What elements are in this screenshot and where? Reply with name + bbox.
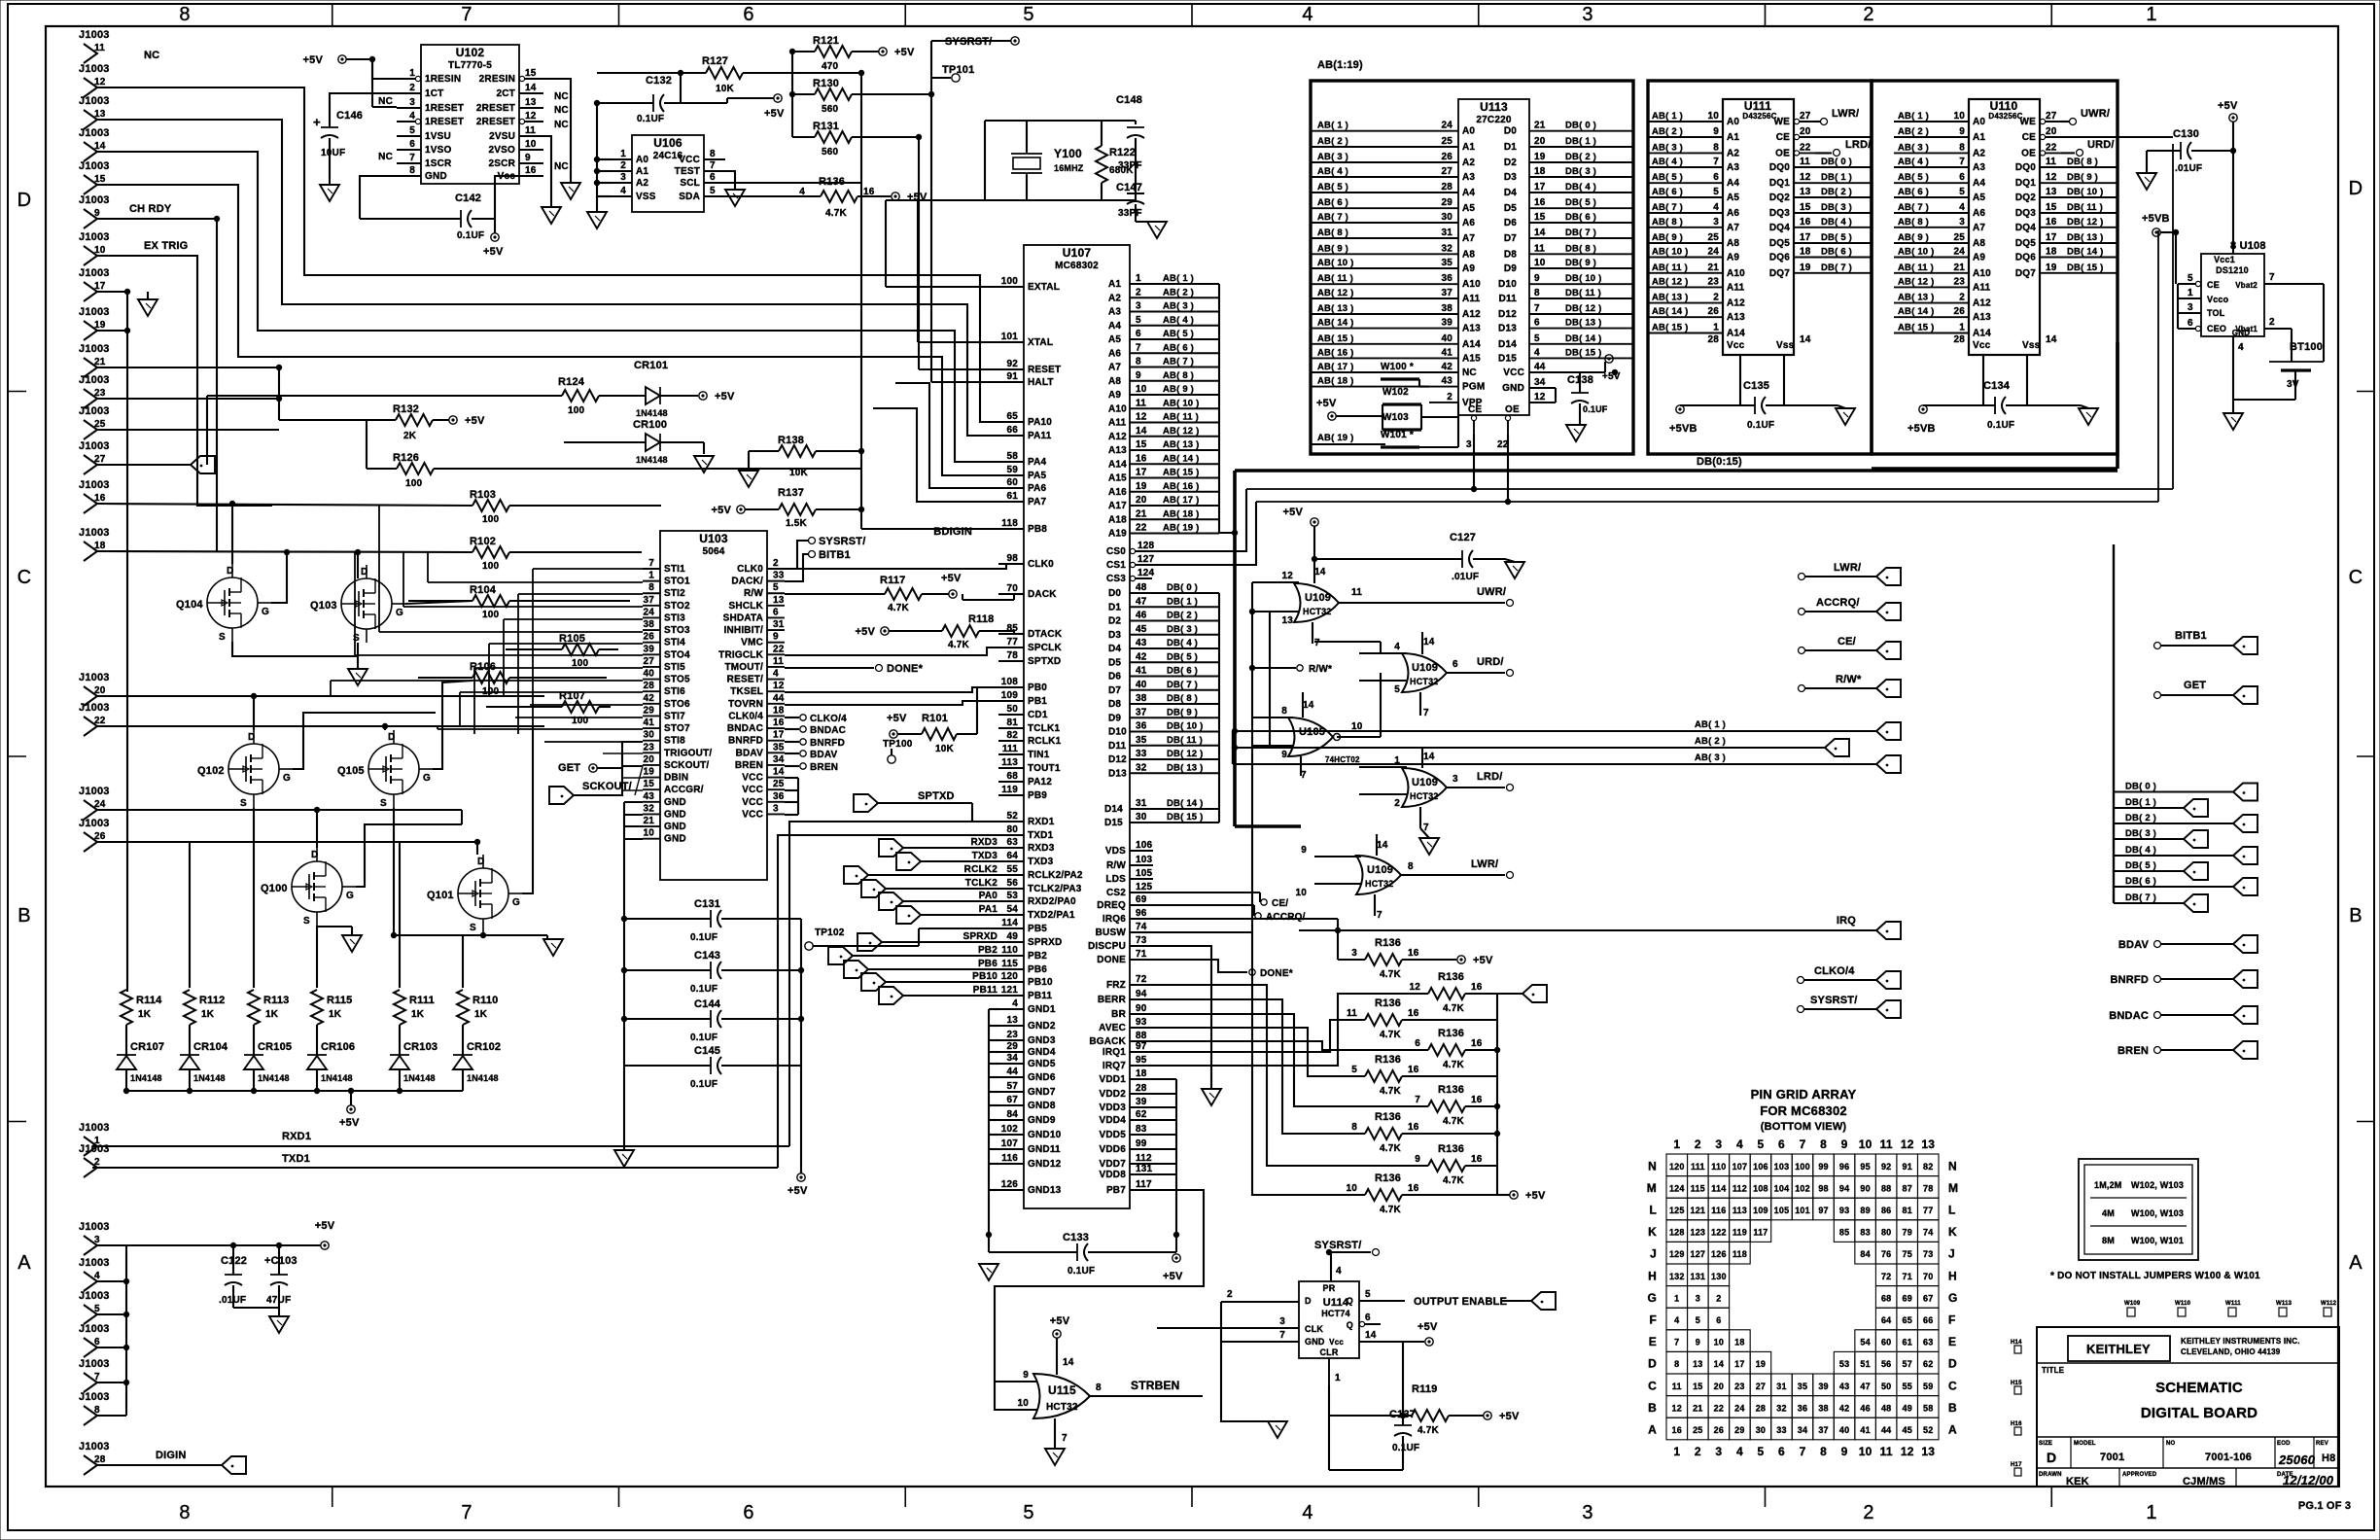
svg-text:+5V: +5V xyxy=(887,713,907,724)
svg-text:22: 22 xyxy=(1800,142,1811,153)
svg-text:0.1UF: 0.1UF xyxy=(457,230,484,241)
svg-text:18: 18 xyxy=(94,541,106,551)
svg-text:DB( 7 ): DB( 7 ) xyxy=(1167,680,1198,690)
wire U103 TKSEL to U107 PB0 xyxy=(785,687,1024,692)
U103 pin 39 STO4 xyxy=(643,653,660,655)
wire U102 pin2 to C146 xyxy=(330,93,397,100)
svg-text:128: 128 xyxy=(1137,541,1155,551)
U103 pin 35 BDAV xyxy=(767,752,785,753)
svg-text:F: F xyxy=(1948,1312,1956,1326)
svg-text:D2: D2 xyxy=(1504,157,1517,168)
svg-text:41: 41 xyxy=(1860,1425,1870,1435)
U107 pin 20 A17 / bus AB(17) xyxy=(1130,505,1219,507)
svg-text:DTACK: DTACK xyxy=(1028,629,1063,640)
svg-text:12: 12 xyxy=(1409,982,1420,993)
svg-text:42: 42 xyxy=(643,693,654,704)
svg-text:3: 3 xyxy=(1959,217,1965,227)
terminal BNRFD xyxy=(2154,976,2161,983)
svg-text:BNDAC: BNDAC xyxy=(2109,1010,2149,1022)
svg-text:4: 4 xyxy=(1736,1137,1743,1151)
transistor Q101 xyxy=(458,868,508,919)
svg-text:560: 560 xyxy=(822,104,839,115)
IC U113 27C220 xyxy=(1458,99,1529,415)
svg-text:VDS: VDS xyxy=(1105,846,1126,857)
svg-text:D11: D11 xyxy=(1499,294,1518,304)
svg-text:AB( 9 ): AB( 9 ) xyxy=(1898,232,1929,243)
svg-text:D7: D7 xyxy=(1504,233,1517,244)
wire R110 column up xyxy=(462,935,464,988)
svg-text:9: 9 xyxy=(1534,273,1540,284)
svg-text:1N4148: 1N4148 xyxy=(403,1073,436,1083)
wire FRZ staircase xyxy=(1153,985,1428,1166)
svg-text:23: 23 xyxy=(94,388,106,399)
wire Q103 gate xyxy=(405,601,472,604)
node SYSRST/ at U103 xyxy=(785,541,808,569)
svg-text:U109: U109 xyxy=(1305,592,1331,604)
svg-text:KEK: KEK xyxy=(2066,1476,2089,1487)
svg-text:GND: GND xyxy=(664,822,686,832)
svg-text:S: S xyxy=(470,923,476,933)
svg-text:102: 102 xyxy=(1795,1183,1810,1193)
svg-text:96: 96 xyxy=(1136,908,1147,919)
svg-text:S: S xyxy=(353,633,360,644)
svg-text:D7: D7 xyxy=(1108,685,1121,696)
svg-text:5: 5 xyxy=(1365,1289,1371,1300)
svg-text:16: 16 xyxy=(1672,1425,1682,1435)
connector J1003 pin 4 xyxy=(84,1272,97,1291)
svg-text:1RESET: 1RESET xyxy=(425,117,464,127)
wire AVEC staircase xyxy=(1153,1028,1365,1076)
transistor Q100 xyxy=(292,861,342,912)
U107 pin 114 PB5 xyxy=(998,927,1024,929)
svg-text:HCT32: HCT32 xyxy=(1046,1402,1078,1413)
svg-text:6: 6 xyxy=(1959,172,1965,183)
svg-text:GND8: GND8 xyxy=(1028,1101,1056,1111)
svg-text:PB10: PB10 xyxy=(1028,977,1053,988)
svg-text:18: 18 xyxy=(1800,247,1811,258)
svg-text:DB( 2 ): DB( 2 ) xyxy=(1821,187,1852,197)
svg-text:PB6: PB6 xyxy=(1028,964,1047,975)
svg-text:10: 10 xyxy=(1136,384,1147,395)
terminal LWR/ xyxy=(1799,574,1805,580)
svg-text:DB( 14 ): DB( 14 ) xyxy=(1167,798,1204,809)
svg-text:.01UF: .01UF xyxy=(1452,572,1479,582)
svg-text:TXD2/PA1: TXD2/PA1 xyxy=(1028,910,1075,921)
svg-text:E: E xyxy=(1948,1335,1956,1348)
svg-text:7: 7 xyxy=(1423,708,1429,718)
U103 pin 30 STI8 xyxy=(643,740,660,742)
svg-text:23: 23 xyxy=(1953,276,1965,287)
U113 pin 42 NC xyxy=(1429,371,1458,373)
U107 pin 62 VDD4 xyxy=(1130,1119,1153,1121)
U113 pin 15 D6 / bus DB(6) xyxy=(1529,222,1633,224)
svg-text:A14: A14 xyxy=(1108,459,1127,470)
wire to U107 PA6 xyxy=(895,383,998,488)
svg-text:A13: A13 xyxy=(1108,445,1127,456)
wire diode common bus xyxy=(126,1090,463,1092)
svg-text:PB11: PB11 xyxy=(973,985,998,996)
svg-text:D3: D3 xyxy=(1504,172,1517,183)
svg-text:AB( 7 ): AB( 7 ) xyxy=(1317,212,1348,223)
ground below U106 TEST xyxy=(725,171,735,190)
svg-text:D43256C: D43256C xyxy=(1742,112,1776,121)
svg-text:A1: A1 xyxy=(1108,279,1121,290)
svg-text:AB( 17 ): AB( 17 ) xyxy=(1317,362,1354,372)
U113 pin 19 D2 / bus DB(2) xyxy=(1529,161,1633,163)
svg-text:RXD3: RXD3 xyxy=(1028,843,1055,854)
svg-text:64: 64 xyxy=(1006,851,1018,861)
U113 pin 39 A13 xyxy=(1429,328,1458,330)
svg-text:R136: R136 xyxy=(1375,1111,1401,1123)
svg-text:K: K xyxy=(1648,1225,1657,1239)
svg-text:82: 82 xyxy=(1006,730,1018,741)
svg-text:41: 41 xyxy=(643,717,654,728)
U107 pin 29 GND4 xyxy=(998,1051,1024,1053)
U103 pin 26 STI4 xyxy=(643,642,660,644)
svg-text:1: 1 xyxy=(1136,273,1141,284)
svg-text:110: 110 xyxy=(1711,1162,1726,1172)
svg-text:29: 29 xyxy=(1441,197,1452,208)
svg-text:DB( 8 ): DB( 8 ) xyxy=(1565,243,1596,254)
svg-text:D0: D0 xyxy=(1108,588,1121,599)
U103 pin 38 STO3 xyxy=(643,629,660,631)
svg-text:(BOTTOM VIEW): (BOTTOM VIEW) xyxy=(1761,1121,1847,1133)
wire to U107 PA7 xyxy=(873,408,998,502)
svg-text:4.7K: 4.7K xyxy=(1443,1116,1465,1127)
svg-text:24: 24 xyxy=(1734,1403,1744,1413)
svg-text:SDA: SDA xyxy=(679,192,700,202)
svg-text:D10: D10 xyxy=(1498,279,1517,290)
U113 pin 7 D12 / bus DB(12) xyxy=(1529,313,1633,315)
svg-text:STO3: STO3 xyxy=(664,625,690,636)
svg-text:96: 96 xyxy=(1839,1162,1849,1172)
svg-text:A6: A6 xyxy=(1462,218,1475,228)
svg-text:69: 69 xyxy=(1136,894,1147,905)
U107 pin 13 GND2 xyxy=(998,1025,1024,1027)
U114 pin 14 Vcc xyxy=(1359,1341,1424,1343)
U107 pin 84 GND9 xyxy=(998,1119,1024,1121)
svg-text:AB( 10 ): AB( 10 ) xyxy=(1898,247,1935,258)
svg-text:GND2: GND2 xyxy=(1028,1021,1056,1032)
svg-text:93: 93 xyxy=(1839,1206,1849,1215)
svg-text:DQ2: DQ2 xyxy=(2015,192,2036,203)
U113 pin 25 A1 xyxy=(1429,146,1458,148)
U113 pin 35 A9 xyxy=(1429,267,1458,269)
svg-text:AB( 13 ): AB( 13 ) xyxy=(1652,293,1689,303)
svg-text:16: 16 xyxy=(773,717,785,728)
svg-text:AB(1:19): AB(1:19) xyxy=(1317,59,1363,71)
svg-text:95: 95 xyxy=(1136,1055,1147,1066)
svg-text:AB( 9 ): AB( 9 ) xyxy=(1163,384,1194,395)
flag PA0 xyxy=(879,892,903,910)
U114 pin 5 Q xyxy=(1359,1300,1405,1302)
svg-text:U111: U111 xyxy=(1744,99,1771,113)
svg-text:R/W*: R/W* xyxy=(1836,674,1862,685)
svg-text:S: S xyxy=(219,632,226,643)
svg-text:30: 30 xyxy=(1441,212,1452,223)
svg-text:48: 48 xyxy=(1136,582,1147,593)
svg-text:1N4148: 1N4148 xyxy=(258,1073,290,1083)
svg-text:GND7: GND7 xyxy=(1028,1087,1056,1098)
terminal R/W* xyxy=(1799,685,1805,692)
svg-text:AB( 9 ): AB( 9 ) xyxy=(1652,232,1683,243)
svg-text:118: 118 xyxy=(1001,518,1018,529)
ground below C147 xyxy=(1147,222,1167,238)
svg-text:+5V: +5V xyxy=(303,54,324,66)
U107 pin 30 D15 / bus DB(15) xyxy=(1130,822,1219,823)
svg-text:BNRFD: BNRFD xyxy=(2111,974,2150,986)
svg-text:A5: A5 xyxy=(1973,192,1985,203)
svg-text:STO1: STO1 xyxy=(664,577,690,587)
svg-text:C: C xyxy=(1948,1379,1957,1392)
svg-text:DB( 14 ): DB( 14 ) xyxy=(1565,333,1602,344)
svg-text:CH RDY: CH RDY xyxy=(129,203,172,215)
svg-text:D: D xyxy=(17,190,32,211)
svg-text:TP100: TP100 xyxy=(883,739,913,750)
U102 pin 8 GND xyxy=(397,175,421,177)
svg-text:A4: A4 xyxy=(1727,178,1739,189)
svg-text:C135: C135 xyxy=(1743,380,1769,392)
svg-text:21: 21 xyxy=(1693,1403,1702,1413)
svg-text:+5V: +5V xyxy=(1499,1411,1520,1422)
wire IRQ7 staircase xyxy=(1153,994,1428,1066)
U103 pin 19 DBIN xyxy=(643,777,660,779)
U103 pin 10 GND xyxy=(643,838,660,840)
svg-text:STI5: STI5 xyxy=(664,662,685,673)
svg-text:RXD1: RXD1 xyxy=(282,1131,311,1142)
svg-text:81: 81 xyxy=(1902,1206,1911,1215)
svg-text:7: 7 xyxy=(1534,303,1540,314)
svg-text:DB( 3 ): DB( 3 ) xyxy=(1821,202,1852,213)
svg-text:STI6: STI6 xyxy=(664,686,685,697)
svg-text:88: 88 xyxy=(1136,1031,1147,1041)
svg-text:18: 18 xyxy=(1136,1068,1147,1079)
svg-text:D: D xyxy=(2047,1450,2056,1465)
svg-text:68: 68 xyxy=(1006,771,1018,782)
svg-text:14: 14 xyxy=(1377,840,1388,851)
svg-text:6: 6 xyxy=(1365,1312,1371,1323)
transistor Q102 xyxy=(228,744,279,794)
svg-text:A1: A1 xyxy=(1973,132,1985,143)
U113 pin 31 A7 xyxy=(1429,237,1458,239)
svg-text:AB( 18 ): AB( 18 ) xyxy=(1163,508,1200,519)
svg-text:3: 3 xyxy=(1582,1502,1592,1523)
svg-text:38: 38 xyxy=(1441,303,1452,314)
svg-text:5: 5 xyxy=(1136,315,1141,326)
svg-text:GND: GND xyxy=(664,834,686,845)
svg-text:D: D xyxy=(311,850,318,860)
svg-text:REV: REV xyxy=(2316,1441,2328,1447)
svg-text:13: 13 xyxy=(1281,615,1293,626)
svg-text:106: 106 xyxy=(1753,1162,1768,1172)
svg-text:SPRXD: SPRXD xyxy=(963,931,997,942)
bus AB(1) to flag xyxy=(1233,730,1876,732)
U102 pin 13 2RESET xyxy=(519,107,543,109)
U107 pin 23 GND3 xyxy=(998,1039,1024,1041)
svg-text:114: 114 xyxy=(1001,918,1018,928)
svg-text:82: 82 xyxy=(1923,1162,1933,1172)
U107 pin 16 A14 / bus AB(14) xyxy=(1130,463,1219,465)
svg-text:DB( 14 ): DB( 14 ) xyxy=(2067,247,2104,258)
power +5V right of CR101 xyxy=(699,392,707,400)
svg-text:PB8: PB8 xyxy=(1028,524,1047,535)
svg-text:DB( 12 ): DB( 12 ) xyxy=(1565,303,1602,314)
U107 pin 19 A16 / bus AB(16) xyxy=(1130,491,1219,493)
svg-text:98: 98 xyxy=(1818,1183,1828,1193)
svg-text:49: 49 xyxy=(1006,931,1018,942)
svg-text:11: 11 xyxy=(1800,157,1810,167)
wire U103 CLK0 to U107 CLK0 xyxy=(785,564,1024,569)
svg-text:12: 12 xyxy=(773,681,785,691)
svg-text:16: 16 xyxy=(1471,1095,1483,1105)
svg-text:UWR/: UWR/ xyxy=(2081,108,2110,120)
connector J1003 pin 2 xyxy=(84,1158,97,1177)
svg-text:VSS: VSS xyxy=(636,192,656,202)
svg-text:48: 48 xyxy=(1881,1403,1891,1413)
svg-text:DB( 2 ): DB( 2 ) xyxy=(1167,611,1198,621)
svg-text:L: L xyxy=(1948,1203,1956,1216)
svg-text:44: 44 xyxy=(1006,1067,1018,1077)
svg-text:VCC: VCC xyxy=(742,809,763,820)
svg-text:16: 16 xyxy=(1408,1065,1419,1075)
svg-text:100: 100 xyxy=(482,610,500,620)
svg-text:26: 26 xyxy=(94,831,106,842)
svg-text:KEITHLEY INSTRUMENTS INC.: KEITHLEY INSTRUMENTS INC. xyxy=(2181,1337,2300,1346)
svg-text:11: 11 xyxy=(1351,587,1362,598)
svg-text:16: 16 xyxy=(1408,1183,1419,1194)
svg-text:+5V: +5V xyxy=(712,505,732,516)
svg-text:A5: A5 xyxy=(1462,203,1475,214)
svg-text:TCLK2/PA3: TCLK2/PA3 xyxy=(1028,884,1082,894)
svg-text:U113: U113 xyxy=(1480,100,1508,114)
svg-text:CLK0: CLK0 xyxy=(737,564,763,575)
svg-text:40: 40 xyxy=(1136,680,1147,690)
wire x886 vertical xyxy=(860,73,862,529)
U107 pin 113 TOUT1 xyxy=(998,767,1024,769)
svg-text:D1: D1 xyxy=(1108,602,1121,612)
U103 pin 8 STI2 xyxy=(643,592,660,594)
ground far right of U102 xyxy=(542,207,561,224)
U107 pin 57 GND7 xyxy=(998,1091,1024,1093)
svg-text:1: 1 xyxy=(2146,4,2156,25)
svg-text:L: L xyxy=(1649,1203,1657,1216)
svg-text:Q105: Q105 xyxy=(337,765,365,777)
svg-text:67: 67 xyxy=(1923,1293,1933,1303)
connector J1003 pin 27 xyxy=(84,455,97,474)
U113 pin 6 D13 / bus DB(13) xyxy=(1529,328,1633,330)
svg-text:W113: W113 xyxy=(2276,1301,2292,1307)
svg-text:J1003: J1003 xyxy=(79,1290,110,1302)
U107 pin 28 VDD2 xyxy=(1130,1093,1153,1095)
svg-text:D4: D4 xyxy=(1504,188,1517,198)
svg-text:11: 11 xyxy=(94,43,105,53)
svg-text:0.1UF: 0.1UF xyxy=(1583,404,1608,414)
svg-text:8: 8 xyxy=(179,4,190,25)
svg-text:A10: A10 xyxy=(1108,403,1127,414)
svg-text:DB( 11 ): DB( 11 ) xyxy=(1565,288,1601,298)
svg-text:C130: C130 xyxy=(2173,128,2199,140)
svg-text:BDIGIN: BDIGIN xyxy=(933,526,972,538)
svg-text:9: 9 xyxy=(773,632,779,643)
svg-text:1: 1 xyxy=(1335,1373,1341,1383)
svg-text:D2: D2 xyxy=(1108,616,1121,627)
svg-text:C: C xyxy=(1648,1379,1657,1392)
U107 pin 103 R/W xyxy=(1130,864,1153,866)
svg-text:43: 43 xyxy=(1441,376,1452,387)
bus AB(19) row at U113 xyxy=(1311,443,1385,445)
svg-text:4: 4 xyxy=(94,1271,100,1281)
svg-text:10: 10 xyxy=(1953,111,1965,122)
svg-text:26: 26 xyxy=(1714,1425,1724,1435)
wire R112 column up xyxy=(189,842,191,988)
svg-text:111: 111 xyxy=(1002,744,1018,754)
U107 pin 90 BR xyxy=(1130,1013,1153,1015)
svg-text:69: 69 xyxy=(1902,1293,1911,1303)
svg-text:G: G xyxy=(346,891,354,901)
svg-text:CE: CE xyxy=(2022,132,2036,143)
svg-text:21: 21 xyxy=(1534,121,1546,131)
svg-text:115: 115 xyxy=(1691,1183,1705,1193)
svg-text:CR105: CR105 xyxy=(258,1041,292,1053)
svg-text:RCLK2: RCLK2 xyxy=(964,864,998,875)
svg-text:XTAL: XTAL xyxy=(1028,337,1053,348)
ground below U106 left rail xyxy=(587,212,607,228)
svg-text:AB( 9 ): AB( 9 ) xyxy=(1317,243,1348,254)
svg-text:4.7K: 4.7K xyxy=(1443,1003,1465,1014)
svg-text:J1003: J1003 xyxy=(79,1323,110,1335)
svg-text:13: 13 xyxy=(1921,1445,1935,1458)
svg-text:UWR/: UWR/ xyxy=(1477,586,1506,598)
resistor R110 xyxy=(457,990,469,1025)
svg-text:75: 75 xyxy=(1902,1249,1911,1259)
svg-text:HCT32: HCT32 xyxy=(1365,879,1394,889)
svg-text:60: 60 xyxy=(1006,477,1018,488)
wire SYSRST vertical xyxy=(930,41,932,94)
svg-text:9: 9 xyxy=(1301,845,1307,856)
svg-text:30: 30 xyxy=(1136,812,1147,822)
svg-text:32: 32 xyxy=(1776,1403,1786,1413)
svg-text:A7: A7 xyxy=(1108,363,1121,373)
svg-text:D12: D12 xyxy=(1108,754,1127,765)
ground below U109c xyxy=(1419,838,1439,855)
svg-text:38: 38 xyxy=(643,619,654,630)
svg-text:3: 3 xyxy=(773,803,779,814)
svg-text:AB( 8 ): AB( 8 ) xyxy=(1163,370,1194,381)
svg-text:R106: R106 xyxy=(470,661,496,673)
U103 pin 43 GND xyxy=(643,801,660,803)
svg-text:DACK/: DACK/ xyxy=(731,577,763,587)
svg-text:DREQ: DREQ xyxy=(1097,900,1126,911)
svg-text:R110: R110 xyxy=(472,995,499,1006)
bus DB(1) to flag xyxy=(2114,807,2184,809)
svg-text:116: 116 xyxy=(1711,1206,1726,1215)
wire U106 SCL xyxy=(725,182,861,184)
svg-text:12: 12 xyxy=(525,111,537,122)
svg-text:5: 5 xyxy=(94,1304,100,1314)
svg-text:A0: A0 xyxy=(1973,117,1985,127)
svg-text:AB( 11 ): AB( 11 ) xyxy=(1163,412,1199,423)
svg-text:2: 2 xyxy=(1695,1445,1701,1458)
svg-text:41: 41 xyxy=(1136,666,1147,677)
svg-text:TKSEL: TKSEL xyxy=(730,686,763,697)
svg-text:7: 7 xyxy=(1415,1095,1420,1105)
svg-text:AB( 12 ): AB( 12 ) xyxy=(1163,426,1200,437)
svg-text:R104: R104 xyxy=(470,584,497,596)
svg-text:Q100: Q100 xyxy=(261,883,288,894)
svg-text:DB( 10 ): DB( 10 ) xyxy=(1565,273,1602,284)
svg-text:10: 10 xyxy=(1534,258,1546,268)
svg-text:A2: A2 xyxy=(1462,157,1475,168)
